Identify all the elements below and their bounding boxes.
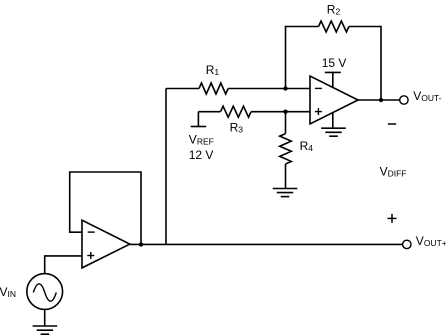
resistor R2 (feedback) xyxy=(286,21,382,100)
source VIN (sine) xyxy=(27,274,63,310)
resistor R4 xyxy=(280,112,292,189)
terminal VREF xyxy=(191,112,207,127)
svg-text:VOUT-: VOUT- xyxy=(413,89,441,103)
wire: riser from main line up to R1 xyxy=(165,89,167,245)
node: junction at R2/output xyxy=(379,98,383,102)
node: junction R1/R2 xyxy=(283,86,287,90)
svg-text:R1: R1 xyxy=(206,63,220,77)
svg-text:R3: R3 xyxy=(230,120,244,134)
U1 non-inverting input marker xyxy=(315,108,322,115)
minus sign (output polarity) xyxy=(388,123,396,125)
svg-text:15 V: 15 V xyxy=(322,56,347,70)
resistor R3 xyxy=(198,106,310,117)
wire: VIN to U2 non-inverting input xyxy=(45,256,82,274)
svg-text:R2: R2 xyxy=(327,3,341,17)
wire: U1 output to VOUT- terminal xyxy=(358,99,400,101)
terminal VOUT+ xyxy=(403,240,411,248)
wire: main output line U2 to VOUT+ terminal xyxy=(130,243,403,245)
svg-text:VOUT+: VOUT+ xyxy=(416,234,446,248)
node: junction R3/R4 xyxy=(283,110,287,114)
U2 inverting input marker xyxy=(88,231,95,233)
node: junction at U2 output xyxy=(139,242,143,246)
resistor R1 xyxy=(166,83,310,94)
wire: VIN to ground xyxy=(44,309,46,326)
wire: U2 feedback loop (inverting input to output node) xyxy=(70,172,141,245)
ground (below U1) xyxy=(321,113,346,137)
supply 15 V xyxy=(325,72,341,87)
svg-text:VIN: VIN xyxy=(0,285,16,299)
svg-text:12 V: 12 V xyxy=(189,148,214,162)
svg-text:VREF: VREF xyxy=(189,133,214,147)
svg-text:R4: R4 xyxy=(300,139,314,153)
svg-text:VDIFF: VDIFF xyxy=(380,164,407,178)
ground (below VIN) xyxy=(33,326,58,334)
terminal VOUT- xyxy=(400,96,408,104)
ground (below R4) xyxy=(273,189,298,197)
U2 non-inverting input marker xyxy=(87,252,94,259)
U1 inverting input marker xyxy=(315,87,322,89)
op-amp U2 (left buffer) xyxy=(82,220,130,268)
op-amp U1 (difference stage) xyxy=(310,76,358,124)
plus sign (output polarity) xyxy=(388,214,397,223)
